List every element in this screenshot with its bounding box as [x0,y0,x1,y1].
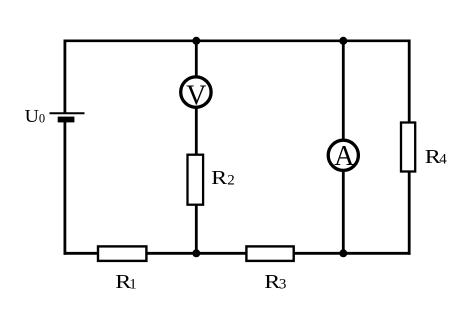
resistor R1 [98,246,146,261]
svg-text:1: 1 [129,277,137,293]
svg-text:0: 0 [39,111,45,125]
wire left vertical upper (top wire to battery) [64,40,67,114]
wire top horizontal [64,39,411,42]
resistor R3 [246,246,293,261]
battery U0 [50,113,85,122]
wire R2 to bottom node [195,205,198,254]
resistor R4 [401,123,415,172]
wire right vertical lower (R4 to bottom wire) [408,172,411,255]
wire voltmeter to R2 [195,108,198,156]
node top-right junction [339,37,347,45]
wire voltmeter branch upper (top node to voltmeter) [195,41,198,77]
svg-text:A: A [334,141,355,172]
svg-text:U: U [25,106,39,126]
svg-text:2: 2 [227,172,235,188]
node top-middle junction [192,37,200,45]
node bottom-right junction [339,249,347,257]
node bottom-middle junction [192,249,200,257]
svg-text:3: 3 [279,277,287,293]
wire right vertical upper (top wire to R4) [408,40,411,124]
label R4 [425,146,448,168]
svg-text:4: 4 [439,152,447,168]
label R3 [264,271,286,293]
label R1 [115,271,136,293]
wire ammeter to bottom node [342,171,345,254]
label R2 [211,167,235,189]
wire left vertical lower (battery to bottom wire) [64,122,67,255]
ammeter A [328,140,358,172]
label U0 [25,106,45,126]
voltmeter U1 [181,77,211,112]
wire ammeter branch upper (top node to ammeter) [342,41,345,140]
wire bottom horizontal [64,252,411,255]
svg-text:R: R [211,167,228,189]
svg-text:V: V [186,80,206,111]
resistor R2 [188,155,204,205]
